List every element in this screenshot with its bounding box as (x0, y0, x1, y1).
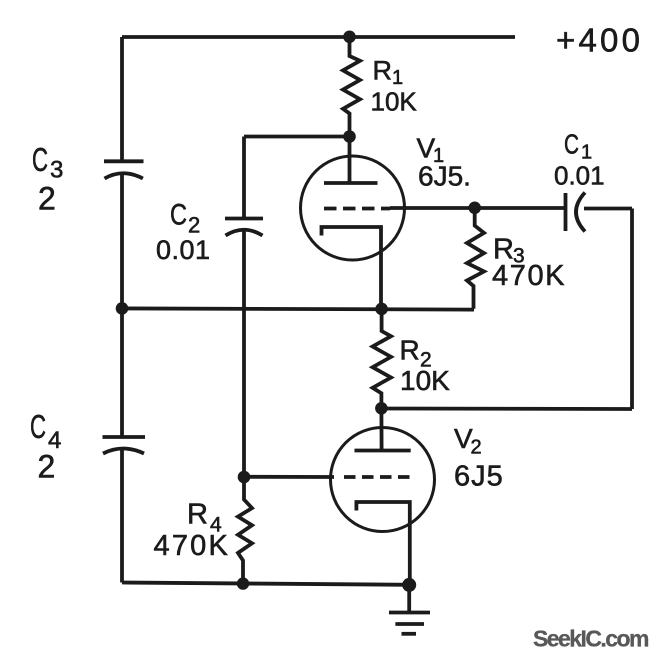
V1 plate (324, 181, 378, 185)
svg-text:3: 3 (50, 157, 63, 184)
svg-text:C: C (170, 199, 187, 232)
node below R2 (375, 402, 388, 415)
vacuum tube V1 (301, 137, 405, 309)
svg-text:10K: 10K (400, 365, 450, 396)
svg-text:R: R (400, 335, 420, 366)
V2 plate lead (379, 408, 383, 450)
node left mid (116, 302, 129, 315)
capacitor C2 (225, 137, 263, 236)
wire R1 node to C2 branch (244, 135, 350, 139)
wire C1 to right loop (584, 207, 632, 211)
node bottom cathode ground (402, 578, 416, 592)
V1 grid dashed (324, 207, 390, 211)
capacitor C1 (566, 193, 586, 232)
wire left rail upper (120, 37, 124, 161)
node V1 output (468, 202, 481, 215)
node top rail R1 junction (343, 31, 356, 44)
svg-text:6J5.: 6J5. (418, 161, 471, 192)
V2 cathode (356, 502, 409, 585)
resistor R4 (238, 477, 252, 585)
node below R1 (343, 130, 356, 143)
svg-text:2: 2 (471, 437, 482, 459)
capacitor C3 (104, 161, 144, 178)
svg-text:2: 2 (38, 181, 56, 217)
V1 cathode (322, 227, 382, 309)
node grid R4 (238, 471, 251, 484)
svg-text:R: R (187, 499, 208, 531)
svg-text:470K: 470K (154, 530, 231, 562)
wire left rail to C4 (120, 309, 124, 438)
V2 grid dashed (344, 475, 413, 479)
svg-text:2: 2 (38, 449, 56, 485)
svg-text:C: C (32, 141, 48, 178)
resistor R1 (343, 37, 360, 137)
node bottom R4 (237, 577, 249, 589)
vacuum tube V2 (331, 408, 435, 584)
capacitor C4 (103, 437, 146, 454)
svg-text:R: R (373, 56, 393, 86)
svg-text:2: 2 (188, 213, 200, 238)
svg-text:10K: 10K (371, 87, 418, 117)
wire bottom bus (122, 583, 410, 585)
wire output node to C1 (475, 206, 566, 210)
svg-text:SeekIC.com: SeekIC.com (533, 626, 649, 652)
wire V1 grid to output node (390, 206, 475, 210)
wire left rail middle (120, 174, 124, 309)
svg-text:470K: 470K (492, 260, 566, 292)
wire mid bus (122, 308, 474, 309)
wire C2 to grid node (242, 231, 246, 477)
wire right loop bottom (381, 407, 632, 411)
svg-text:0.01: 0.01 (554, 161, 605, 191)
node V1 cathode mid (375, 303, 388, 316)
svg-text:C: C (30, 408, 46, 445)
V2 plate (355, 449, 411, 453)
ground (389, 585, 430, 634)
wire top supply rail (122, 35, 515, 39)
wire left rail lower (120, 450, 124, 583)
svg-text:+400: +400 (556, 22, 643, 59)
resistor R3 (467, 208, 484, 309)
svg-text:C: C (564, 129, 579, 160)
wire V2 grid to R4 node (244, 475, 334, 479)
resistor R2 (373, 309, 391, 409)
svg-text:0.01: 0.01 (156, 235, 211, 265)
svg-text:6J5: 6J5 (454, 461, 504, 493)
wire right loop vertical (630, 209, 634, 410)
V1 plate lead (348, 137, 352, 184)
